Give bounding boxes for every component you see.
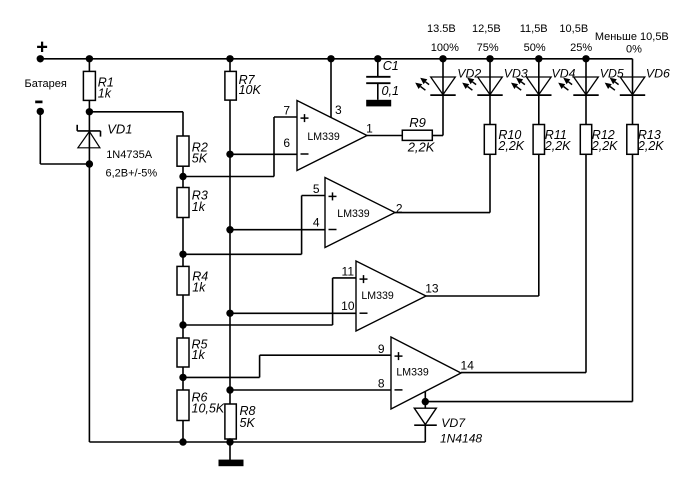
svg-text:2,2K: 2,2K [407, 139, 436, 154]
svg-text:10: 10 [341, 299, 355, 313]
svg-text:1k: 1k [192, 348, 206, 362]
svg-text:10,5В: 10,5В [559, 23, 588, 35]
svg-text:C1: C1 [383, 59, 399, 73]
svg-text:VD6: VD6 [646, 67, 670, 81]
svg-text:VD1: VD1 [107, 122, 132, 137]
svg-text:6: 6 [283, 136, 290, 150]
svg-text:VD4: VD4 [552, 67, 576, 81]
svg-text:VD2: VD2 [457, 67, 481, 81]
svg-text:12,5В: 12,5В [472, 23, 501, 35]
svg-text:+: + [36, 37, 48, 59]
svg-text:11: 11 [342, 265, 355, 279]
svg-text:14: 14 [461, 358, 475, 372]
svg-text:R9: R9 [409, 115, 426, 130]
svg-text:5K: 5K [192, 152, 208, 166]
svg-text:Меньше 10,5В: Меньше 10,5В [595, 31, 669, 43]
svg-text:2,2K: 2,2K [497, 139, 524, 153]
svg-text:3: 3 [335, 103, 342, 117]
svg-text:1N4735A: 1N4735A [106, 149, 153, 161]
svg-text:4: 4 [313, 216, 320, 230]
svg-text:Батарея: Батарея [25, 78, 67, 90]
svg-text:1k: 1k [192, 200, 206, 214]
svg-text:LM339: LM339 [361, 290, 393, 302]
svg-text:6,2В+/-5%: 6,2В+/-5% [106, 168, 158, 180]
svg-text:25%: 25% [570, 42, 592, 54]
svg-text:5K: 5K [240, 416, 256, 430]
svg-text:1k: 1k [192, 281, 206, 295]
svg-text:5: 5 [313, 182, 320, 196]
svg-text:50%: 50% [524, 42, 546, 54]
svg-text:LM339: LM339 [307, 131, 339, 143]
svg-text:1N4148: 1N4148 [440, 432, 482, 446]
svg-text:VD3: VD3 [504, 67, 528, 81]
svg-text:9: 9 [378, 342, 385, 356]
svg-text:75%: 75% [477, 42, 499, 54]
svg-text:13.5В: 13.5В [427, 23, 456, 35]
svg-text:VD7: VD7 [441, 416, 466, 430]
svg-text:1: 1 [366, 122, 373, 136]
svg-text:2: 2 [396, 201, 403, 215]
svg-text:2,2K: 2,2K [637, 139, 664, 153]
svg-text:13: 13 [425, 282, 439, 296]
svg-text:10,5K: 10,5K [192, 402, 225, 416]
svg-text:1k: 1k [98, 86, 112, 100]
svg-text:100%: 100% [431, 42, 459, 54]
svg-text:LM339: LM339 [396, 367, 428, 379]
svg-text:LM339: LM339 [337, 208, 369, 220]
svg-text:0,1: 0,1 [382, 84, 400, 98]
svg-text:2,2K: 2,2K [544, 139, 571, 153]
svg-text:8: 8 [378, 376, 385, 390]
svg-text:7: 7 [283, 104, 290, 118]
svg-text:10K: 10K [239, 83, 262, 97]
svg-text:0%: 0% [626, 43, 642, 55]
svg-text:VD5: VD5 [600, 67, 624, 81]
svg-text:11,5В: 11,5В [520, 23, 548, 35]
svg-text:2,2K: 2,2K [591, 139, 618, 153]
